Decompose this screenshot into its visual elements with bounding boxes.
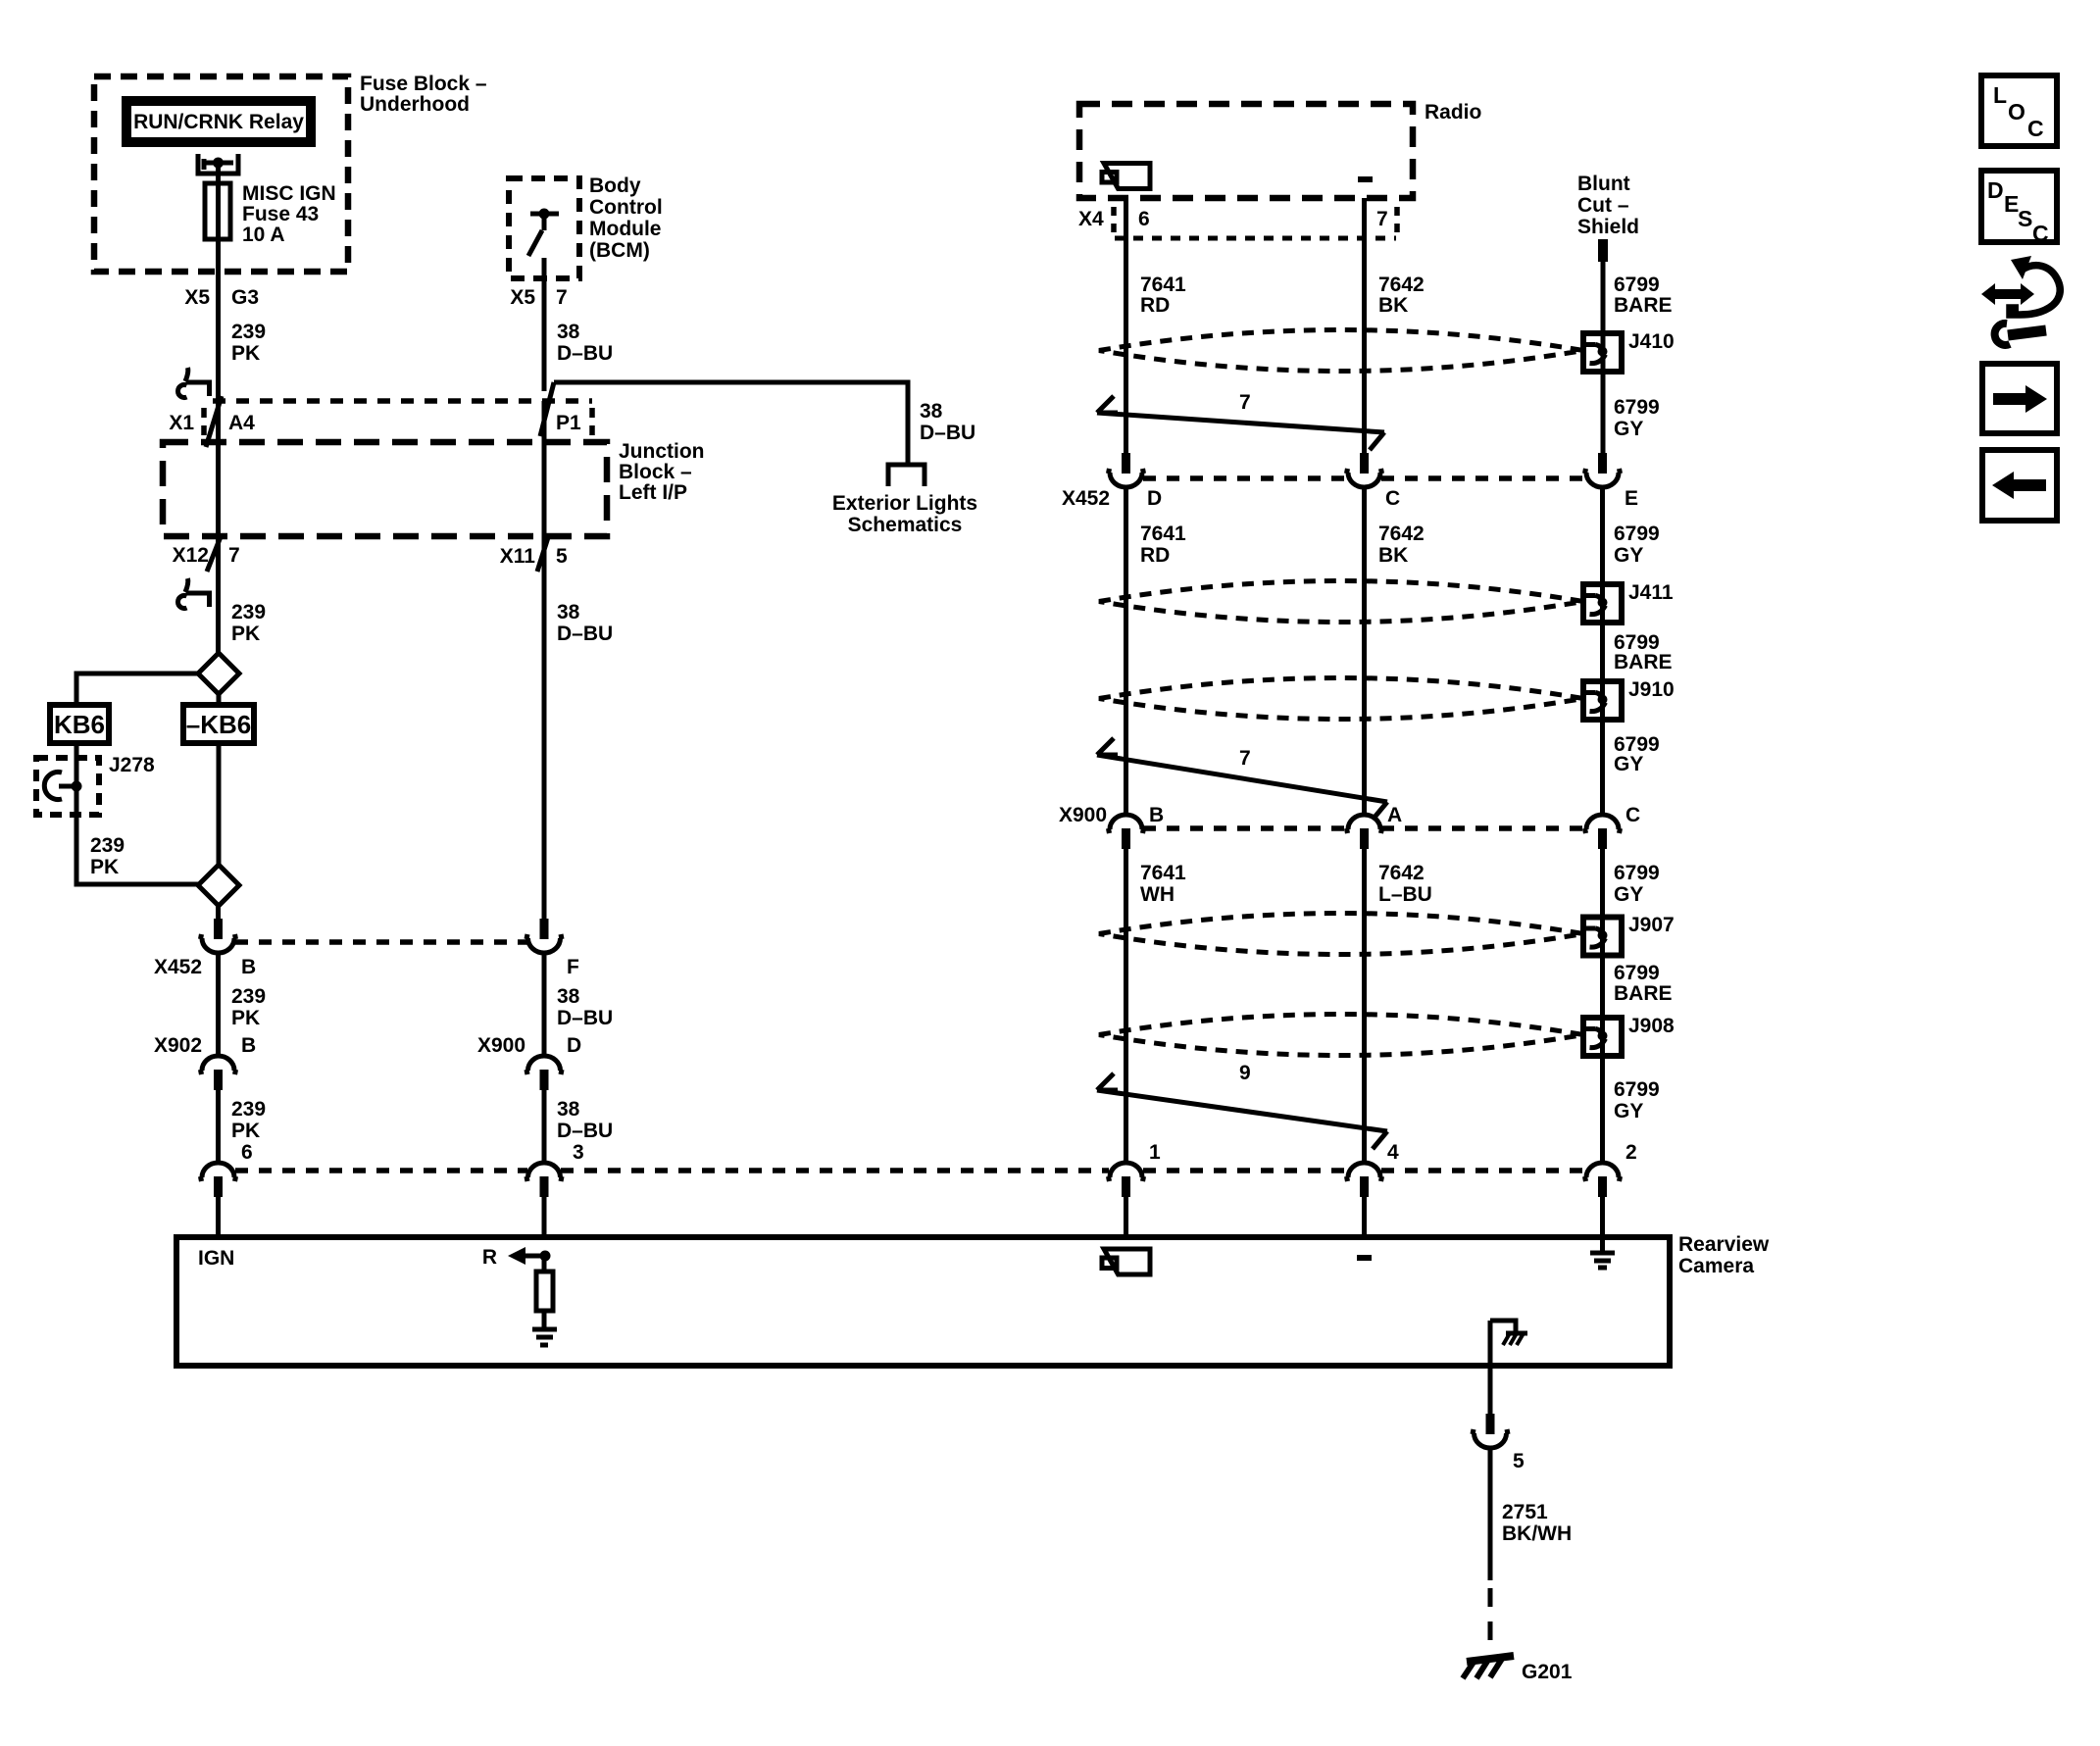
svg-text:7642: 7642 [1378, 862, 1425, 884]
svg-text:239: 239 [231, 1098, 266, 1121]
svg-text:(BCM): (BCM) [589, 239, 650, 262]
svg-text:38: 38 [557, 321, 580, 343]
svg-text:X452: X452 [154, 956, 202, 978]
radio dashed box [1079, 104, 1413, 198]
svg-text:239: 239 [231, 321, 266, 343]
svg-text:O: O [2008, 99, 2025, 125]
wire [216, 239, 221, 401]
camera icon pin [1102, 1249, 1150, 1274]
svg-text:Cut –: Cut – [1577, 194, 1629, 217]
svg-text:B: B [241, 1034, 256, 1057]
internal ground with chassis symbol [1490, 1321, 1516, 1331]
svg-text:2751: 2751 [1502, 1501, 1548, 1523]
svg-text:6799: 6799 [1614, 1078, 1660, 1101]
svg-text:5: 5 [1513, 1450, 1525, 1472]
right arrow box [1982, 364, 2057, 433]
svg-text:Blunt: Blunt [1577, 173, 1630, 195]
svg-text:6799: 6799 [1614, 862, 1660, 884]
ellipse 3 + J910 [1099, 678, 1583, 720]
ellipse 4 + J907 [1099, 914, 1583, 955]
svg-text:7642: 7642 [1378, 523, 1425, 545]
svg-text:BK: BK [1378, 294, 1408, 317]
svg-text:D: D [567, 1034, 581, 1057]
svg-text:WH: WH [1140, 883, 1175, 906]
svg-text:C: C [1625, 804, 1640, 826]
svg-text:3: 3 [573, 1141, 584, 1164]
wires down [1124, 489, 1128, 814]
svg-text:D: D [1987, 177, 2004, 203]
svg-text:7642: 7642 [1378, 274, 1425, 296]
svg-text:7641: 7641 [1140, 862, 1186, 884]
svg-text:Underhood: Underhood [360, 93, 470, 116]
svg-text:D–BU: D–BU [920, 422, 975, 444]
svg-text:7641: 7641 [1140, 274, 1186, 296]
svg-text:X5: X5 [184, 286, 210, 309]
svg-text:X1: X1 [169, 412, 194, 434]
svg-text:X12: X12 [173, 544, 209, 567]
svg-text:6799: 6799 [1614, 523, 1660, 545]
svg-text:D: D [1147, 487, 1162, 510]
camera icon in radio [1102, 164, 1150, 189]
svg-text:7: 7 [1239, 391, 1251, 414]
svg-text:BK: BK [1378, 544, 1408, 567]
wire KB6 leg [76, 743, 198, 884]
svg-text:GY: GY [1614, 544, 1643, 567]
svg-text:G201: G201 [1522, 1661, 1573, 1683]
svg-text:9: 9 [1239, 1062, 1251, 1084]
svg-text:C: C [1385, 487, 1400, 510]
svg-text:D–BU: D–BU [557, 1007, 613, 1029]
bottom dashed row [235, 1168, 527, 1173]
fuse MISC IGN Fuse 43 10A [205, 183, 230, 239]
BCM dashed box [509, 178, 579, 278]
svg-text:38: 38 [920, 400, 943, 423]
svg-text:F: F [567, 956, 579, 978]
X1 connector dotted row [213, 398, 592, 404]
slash through X1 [206, 396, 222, 447]
svg-text:6799: 6799 [1614, 962, 1660, 984]
svg-text:BARE: BARE [1614, 982, 1673, 1005]
svg-text:J910: J910 [1628, 678, 1675, 701]
wire [216, 163, 221, 183]
svg-text:C: C [2032, 221, 2049, 246]
svg-text:J908: J908 [1628, 1015, 1675, 1037]
svg-text:5: 5 [556, 545, 568, 568]
ellipse 5 + J908 [1099, 1015, 1583, 1056]
svg-text:C: C [2027, 116, 2044, 141]
svg-text:Schematics: Schematics [848, 514, 963, 536]
svg-text:4: 4 [1387, 1141, 1399, 1164]
svg-text:J411: J411 [1628, 581, 1674, 604]
svg-text:BARE: BARE [1614, 294, 1673, 317]
svg-text:D–BU: D–BU [557, 342, 613, 365]
fuse block underhood dashed box [94, 76, 348, 272]
svg-text:6: 6 [1138, 208, 1150, 230]
svg-text:RD: RD [1140, 294, 1170, 317]
svg-text:IGN: IGN [198, 1247, 234, 1270]
slash through X12 [207, 534, 222, 572]
bottom connector row cap at 6 [199, 1163, 238, 1197]
svg-text:6: 6 [241, 1141, 253, 1164]
wire 6799 shield [1601, 262, 1606, 453]
svg-text:38: 38 [557, 601, 580, 624]
X452 connector row (middle) [1107, 453, 1146, 487]
svg-text:38: 38 [557, 985, 580, 1008]
svg-text:X900: X900 [1059, 804, 1107, 826]
wire [216, 401, 221, 442]
svg-text:R: R [482, 1246, 497, 1269]
wire [542, 536, 547, 919]
ellipse 2 + J411 [1099, 581, 1583, 623]
svg-text:KB6: KB6 [54, 710, 105, 739]
svg-text:Module: Module [589, 218, 662, 240]
svg-text:BARE: BARE [1614, 651, 1673, 673]
svg-text:6799: 6799 [1614, 274, 1660, 296]
KB6 box [50, 705, 109, 743]
minus pin [1358, 176, 1373, 182]
svg-text:1: 1 [1149, 1141, 1161, 1164]
wire through junction [542, 401, 547, 536]
svg-text:A4: A4 [228, 412, 255, 434]
svg-text:10 A: 10 A [242, 224, 285, 246]
wire [542, 278, 547, 391]
svg-text:RD: RD [1140, 544, 1170, 567]
svg-text:GY: GY [1614, 418, 1643, 440]
svg-text:Rearview: Rearview [1678, 1233, 1770, 1256]
hook at X1 [178, 368, 210, 398]
svg-text:X5: X5 [510, 286, 535, 309]
vehicle + wrench icon [2010, 266, 2060, 315]
svg-text:PK: PK [231, 623, 260, 645]
splice diamond 2 [198, 865, 239, 906]
svg-text:Control: Control [589, 196, 663, 219]
svg-text:239: 239 [231, 985, 266, 1008]
pin 5 connector [1471, 1414, 1510, 1448]
ground pin under wire 2 [1600, 1237, 1605, 1253]
svg-text:X900: X900 [477, 1034, 525, 1057]
svg-text:7: 7 [1239, 747, 1251, 770]
left arrow box [1982, 450, 2057, 521]
svg-text:J278: J278 [109, 754, 155, 776]
radio wires down [1124, 198, 1128, 453]
svg-text:E: E [1625, 487, 1638, 510]
wire -KB6 leg [217, 743, 222, 865]
svg-text:B: B [1149, 804, 1164, 826]
svg-text:Junction: Junction [619, 440, 705, 463]
svg-text:Fuse 43: Fuse 43 [242, 203, 319, 225]
DESC box [1981, 171, 2057, 242]
J278 dashed box [36, 758, 99, 815]
svg-text:239: 239 [231, 601, 266, 624]
svg-text:PK: PK [90, 856, 119, 878]
svg-text:Block –: Block – [619, 461, 692, 483]
svg-text:X11: X11 [500, 545, 536, 568]
svg-text:Body: Body [589, 175, 641, 197]
svg-text:L: L [1993, 82, 2007, 108]
svg-text:Fuse Block –: Fuse Block – [360, 73, 487, 95]
svg-text:PK: PK [231, 342, 260, 365]
-KB6 box [183, 705, 254, 743]
svg-text:B: B [241, 956, 256, 978]
bottom connector row cap at 3 [525, 1163, 564, 1197]
svg-text:J410: J410 [1628, 330, 1675, 353]
hook at X12 [178, 578, 210, 609]
connector X452 B (bowl) [199, 919, 238, 953]
svg-text:2: 2 [1625, 1141, 1637, 1164]
svg-text:Shield: Shield [1577, 216, 1639, 238]
slash through X11 [537, 534, 549, 572]
svg-text:239: 239 [90, 834, 125, 857]
svg-text:–KB6: –KB6 [186, 710, 251, 739]
svg-text:38: 38 [557, 1098, 580, 1121]
svg-text:Left I/P: Left I/P [619, 481, 687, 504]
svg-text:7641: 7641 [1140, 523, 1186, 545]
svg-text:7: 7 [228, 544, 240, 567]
wire to -KB6 [217, 694, 222, 705]
wire 239 PK [216, 955, 221, 1055]
ellipse 1 + J410 [1099, 330, 1583, 372]
relay RUN/CRNK box [126, 101, 311, 142]
svg-text:D–BU: D–BU [557, 623, 613, 645]
svg-text:Camera: Camera [1678, 1255, 1754, 1277]
svg-text:Radio: Radio [1425, 101, 1481, 124]
svg-text:GY: GY [1614, 1100, 1643, 1122]
svg-text:Exterior Lights: Exterior Lights [832, 492, 977, 515]
wires down [1124, 849, 1128, 1162]
svg-text:MISC IGN: MISC IGN [242, 182, 336, 205]
relay contact [198, 154, 238, 174]
svg-text:6799: 6799 [1614, 396, 1660, 419]
svg-text:X902: X902 [154, 1034, 202, 1057]
svg-text:7: 7 [556, 286, 568, 309]
svg-text:X4: X4 [1078, 208, 1104, 230]
dashed row to F [235, 939, 528, 945]
branch to exterior lights [554, 382, 908, 464]
wire to X452 [216, 906, 221, 919]
svg-text:GY: GY [1614, 753, 1643, 775]
G201 chassis ground [1467, 1656, 1514, 1662]
svg-text:L–BU: L–BU [1378, 883, 1432, 906]
svg-text:7: 7 [1376, 208, 1388, 230]
connector X452 F (bowl) [525, 919, 564, 953]
svg-text:GY: GY [1614, 883, 1643, 906]
LOC box [1981, 75, 2057, 146]
minus pin [1357, 1255, 1372, 1261]
svg-text:PK: PK [231, 1007, 260, 1029]
J278 grommet [44, 773, 62, 800]
wire [216, 536, 221, 653]
svg-text:G3: G3 [231, 286, 259, 309]
svg-text:BK/WH: BK/WH [1502, 1522, 1572, 1545]
svg-text:PK: PK [231, 1120, 260, 1142]
svg-text:RUN/CRNK Relay: RUN/CRNK Relay [133, 111, 304, 133]
svg-text:P1: P1 [556, 412, 581, 434]
svg-text:D–BU: D–BU [557, 1120, 613, 1142]
junction block dashed box [163, 442, 607, 536]
splice diamond 1 [198, 653, 239, 694]
BCM switch [530, 212, 559, 217]
svg-text:X452: X452 [1062, 487, 1110, 510]
blunt-cut wire stub [1598, 239, 1608, 262]
wire through junction box [216, 442, 221, 536]
svg-text:S: S [2018, 206, 2032, 231]
svg-text:J907: J907 [1628, 914, 1675, 936]
branch wire to KB6 [76, 673, 198, 705]
svg-text:A: A [1387, 804, 1402, 826]
